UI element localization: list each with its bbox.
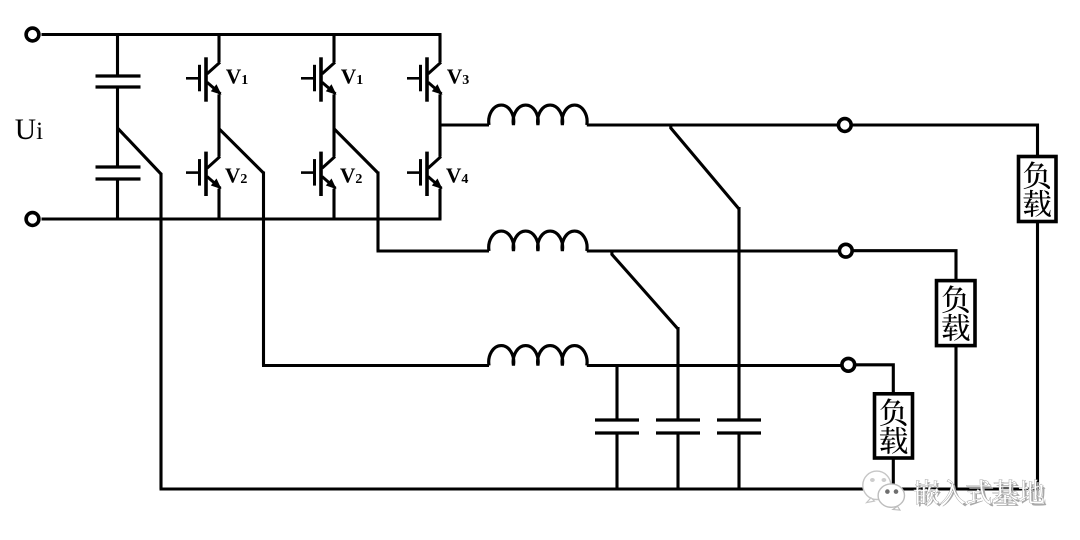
wire: L3 output to terminal C xyxy=(587,364,842,367)
wire: neutral vertical xyxy=(159,173,162,489)
wire: leg1 emitter to bottom rail xyxy=(217,189,220,219)
wire: filter cap CA top stem xyxy=(615,366,618,421)
wire: leg3 emitter to bottom rail xyxy=(438,189,441,219)
wire: bottom DC rail xyxy=(42,217,442,220)
wire: neutral bottom rail xyxy=(160,487,1040,490)
svg-text:V1: V1 xyxy=(226,65,249,89)
wire: filter cap CA bottom stem xyxy=(615,433,618,489)
terminal: input negative xyxy=(26,213,39,226)
wire: phase A diagonal to filter cap xyxy=(671,125,739,209)
wire: phase B filter cap vertical xyxy=(676,327,679,420)
wire: leg3 phase feed to inductor L1 xyxy=(440,123,489,126)
wire: leg3 midpoint segment xyxy=(438,94,441,156)
inductor L2 xyxy=(489,231,587,251)
svg-text:V1: V1 xyxy=(341,65,364,89)
wire: L2 output to terminal B xyxy=(587,249,839,252)
terminal: output phase B xyxy=(839,244,852,257)
capacitor CB (filter) xyxy=(656,420,700,433)
watermark WeChat icon xyxy=(863,471,905,510)
wire: load 2 to neutral rail xyxy=(954,346,957,489)
load 3 box xyxy=(875,394,913,458)
wire: terminal C to load 3 xyxy=(855,365,893,394)
svg-text:V2: V2 xyxy=(225,163,248,187)
wire: phase A filter cap vertical xyxy=(737,207,740,420)
capacitor CC (filter) xyxy=(717,420,761,433)
wire: capacitor branch bottom stem xyxy=(116,179,119,219)
wire: filter cap CC bottom stem xyxy=(737,433,740,489)
wire: capacitor branch top stem xyxy=(116,35,119,77)
wire: neutral diagonal from DC-link midpoint xyxy=(118,128,162,174)
transistor V4 (leg3 low side) xyxy=(407,152,443,196)
wire: leg3 collector drop xyxy=(438,35,441,63)
capacitor C1 (upper DC-link) xyxy=(96,76,141,87)
wire: capacitor branch middle stem xyxy=(116,87,119,167)
inductor L1 xyxy=(489,105,587,125)
wire: leg2 phase diagonal xyxy=(334,129,378,173)
svg-text:Ui: Ui xyxy=(15,114,43,146)
transistor V1 (leg2 high side) xyxy=(301,57,337,101)
wire: top DC rail xyxy=(42,33,442,36)
wire: load 1 to neutral rail xyxy=(1036,222,1039,490)
label 负载 load 2 text xyxy=(942,285,970,340)
wire: leg2 midpoint segment xyxy=(332,94,335,156)
capacitor C2 (lower DC-link) xyxy=(96,167,141,179)
svg-text:V3: V3 xyxy=(447,65,470,89)
transistor V1 (leg1 high side) xyxy=(186,57,222,101)
wire: leg1 collector drop xyxy=(217,35,220,63)
inductor L3 xyxy=(489,346,587,366)
wire: leg1 midpoint segment xyxy=(217,94,220,156)
wire: leg2 phase feed to inductor L2 xyxy=(377,249,490,252)
wire: leg2 emitter to bottom rail xyxy=(332,189,335,219)
transistor V3 (leg3 high side) xyxy=(407,57,443,101)
load 2 box xyxy=(937,281,976,346)
wire: leg1 phase feed to inductor L3 xyxy=(262,364,489,367)
wire: phase B diagonal to filter cap xyxy=(612,251,678,329)
wire: filter cap CB bottom stem xyxy=(676,433,679,489)
terminal: output phase A xyxy=(838,119,851,132)
wire: leg1 phase vertical xyxy=(262,172,265,366)
svg-text:V2: V2 xyxy=(340,163,363,187)
transistor V2 (leg1 low side) xyxy=(186,152,222,196)
watermark text 嵌入式基地 xyxy=(914,480,1046,507)
wire: load 3 to neutral rail xyxy=(892,458,895,489)
wire: terminal B to load 2 xyxy=(853,251,956,281)
label 负载 load 3 text xyxy=(880,398,908,453)
label 负载 load 1 text xyxy=(1023,161,1051,216)
wire: leg1 phase diagonal xyxy=(219,129,264,173)
terminal: output phase C xyxy=(842,358,855,371)
wire: leg2 phase vertical xyxy=(376,172,379,252)
transistor V2 (leg2 low side) xyxy=(301,152,337,196)
wire: L1 output to terminal A xyxy=(587,123,838,126)
wire: leg2 collector drop xyxy=(332,35,335,63)
capacitor CA (filter) xyxy=(595,420,639,433)
load 1 box xyxy=(1019,157,1057,222)
terminal: input positive xyxy=(26,28,39,41)
svg-text:V4: V4 xyxy=(446,163,469,187)
wire: terminal A to load 1 xyxy=(852,125,1038,157)
